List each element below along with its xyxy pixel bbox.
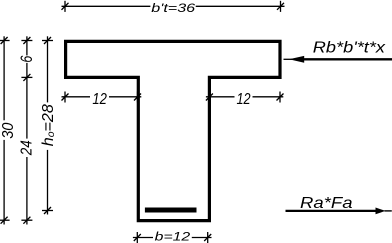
tick bottom of 24	[21, 217, 32, 224]
svg-text:b't=36: b't=36	[151, 1, 195, 15]
force arrow Ra*Fa (pointing right at rebar level)	[286, 208, 392, 215]
tick bottom of 30	[0, 217, 10, 224]
svg-text:30: 30	[0, 122, 17, 139]
dimension 12 right line	[206, 96, 283, 98]
tick top of 6	[21, 37, 32, 44]
svg-text:6: 6	[18, 55, 36, 63]
svg-text:12: 12	[237, 91, 251, 108]
tick right of b't=36	[277, 1, 284, 12]
tick middle (flange bottom)	[21, 74, 32, 81]
tick bottom of h0=28 (rebar level)	[42, 207, 53, 214]
svg-text:ho=28: ho=28	[40, 104, 57, 146]
svg-text:24: 24	[18, 140, 35, 156]
svg-text:b=12: b=12	[155, 230, 191, 243]
tick right of left 12	[134, 92, 141, 103]
T-beam cross-section outline	[66, 41, 280, 220]
tick left of b=12	[134, 232, 141, 243]
tick left of right 12	[206, 92, 213, 103]
dimension 30 vertical line	[3, 36, 5, 224]
tick top of 30	[0, 37, 10, 44]
rebar bar As	[145, 208, 197, 213]
force arrow Rb*b'*t*x (pointing left at flange)	[284, 56, 392, 63]
dimension b=12 bottom line	[133, 237, 212, 239]
dimension 6 / 24 vertical line	[26, 36, 28, 224]
tick left of b't=36	[62, 1, 69, 12]
dimension 12 left line	[62, 96, 142, 98]
svg-text:Ra*Fa: Ra*Fa	[300, 195, 353, 212]
svg-text:12: 12	[92, 91, 107, 108]
dimension b't=36 top line	[62, 5, 285, 7]
svg-text:Rb*b'*t*x: Rb*b'*t*x	[313, 39, 386, 56]
tick top of h0=28	[42, 37, 53, 44]
tick right of b=12	[204, 232, 211, 243]
tick left of left 12	[62, 92, 69, 103]
dimension h0=28 vertical line	[47, 36, 49, 214]
tick right of right 12	[277, 92, 284, 103]
